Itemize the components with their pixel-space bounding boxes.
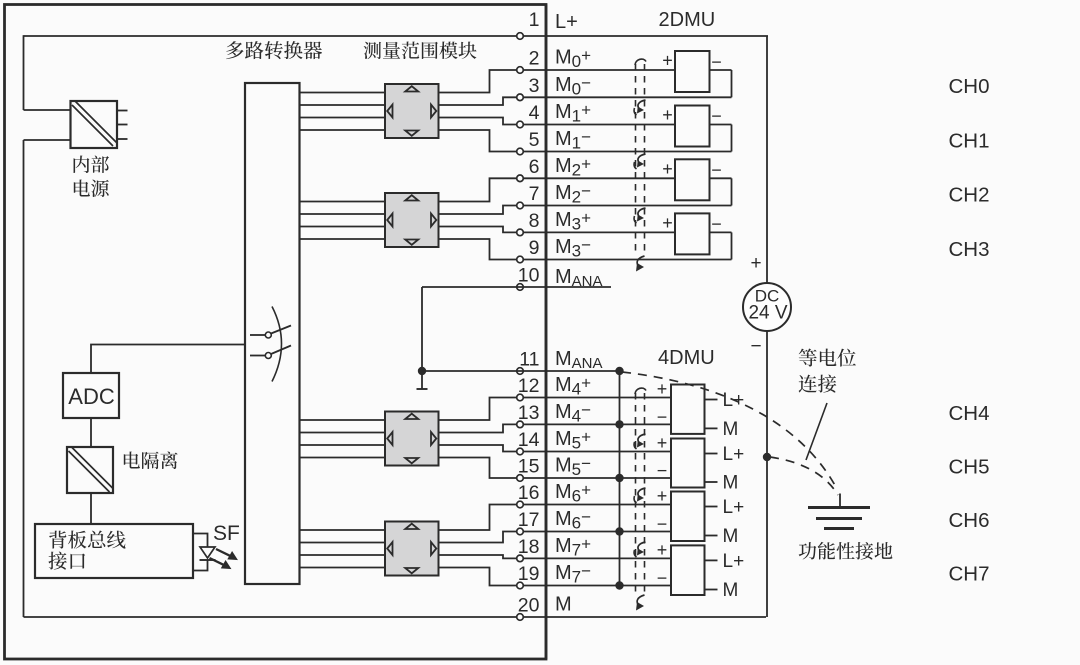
svg-text:19: 19 [518,563,540,585]
range module RM1 box [385,84,439,138]
svg-text:+: + [750,253,761,274]
label 内部 [74,156,109,174]
junction dot bus terminal 15 [615,474,623,482]
svg-text:9: 9 [529,237,540,259]
svg-text:ADC: ADC [68,384,115,409]
svg-text:−: − [711,160,722,180]
wire terminal 5 return [546,151,732,153]
svg-text:CH6: CH6 [949,509,990,532]
svg-text:L+: L+ [723,444,745,465]
MANA node stub [421,371,423,389]
svg-text:6: 6 [529,156,540,178]
range module RM4 input wires from multiplexer [300,529,386,531]
electrical isolation U2 diagonal [69,448,114,493]
terminal 14 circle [517,448,524,455]
terminal 2 circle [517,67,524,74]
terminal 16 circle [517,501,524,508]
label 接口 [48,552,85,570]
wire terminal 10 drop to MANA node [421,287,423,371]
terminal 11 circle [517,368,524,375]
svg-text:−: − [711,214,722,234]
wire terminal 16 to transmitter B6 [546,504,671,506]
transmitter B5 M stub [705,481,718,483]
terminal 19 circle [517,582,524,589]
transmitter B4 L+ stub [705,399,718,401]
terminal 4 circle [517,121,524,128]
wire terminal 8 to transmitter B3 [546,231,675,233]
svg-text:M7−: M7− [555,562,591,587]
wire M rail left riser [23,140,25,617]
svg-text:12: 12 [518,375,540,397]
wire into power supply lower input [24,139,71,141]
junction dot bus terminal 19 [615,581,623,589]
transmitter B2 output loop [710,177,732,179]
wire terminal 4 to transmitter B1 [546,124,675,126]
range module RM1 output fan to terminals 2-5 [439,70,547,93]
range module RM2 box [385,193,439,247]
node MANA junction dot [418,367,426,375]
svg-text:L+: L+ [555,11,578,33]
svg-text:M: M [723,526,739,547]
terminal strip vertical line [545,5,548,660]
svg-text:16: 16 [518,482,540,504]
ground bar 3 [824,527,854,530]
junction dot bus terminal 13 [615,420,623,428]
svg-text:M5+: M5+ [555,428,591,453]
svg-text:M5−: M5− [555,454,591,479]
transmitter B2 (CH2) box [675,159,710,200]
svg-text:M2+: M2+ [555,154,591,179]
label 电源 [74,179,109,197]
label 功能性接地 [799,542,893,560]
transmitter B5 L+ stub [705,453,718,455]
svg-text:1: 1 [529,9,540,31]
transmitter B4 M stub [705,427,718,429]
transmitter B6 L+ stub [705,506,718,508]
multiplexer U4 box [245,83,300,584]
svg-text:L+: L+ [723,497,745,518]
svg-text:5: 5 [529,129,540,151]
svg-text:M2−: M2− [555,182,591,207]
module enclosure outer box [5,5,547,660]
junction dot DC bus equipotential [763,453,771,461]
wire terminal 13 to transmitter B4 [546,423,671,425]
svg-text:7: 7 [529,183,540,205]
svg-text:SF: SF [213,522,240,545]
ground bar 2 [816,517,862,520]
svg-text:M: M [723,419,739,440]
backplane bus interface U3 (背板总线接口) box [35,524,193,578]
svg-text:+: + [657,433,668,453]
terminal 18 circle [517,555,524,562]
terminal 13 circle [517,421,524,428]
svg-text:4DMU: 4DMU [658,347,715,369]
terminal 12 circle [517,394,524,401]
svg-text:+: + [657,379,668,399]
terminal 9 circle [517,256,524,263]
range module RM2 output fan to terminals 6-9 [439,178,547,201]
svg-text:24 V: 24 V [748,303,787,324]
svg-text:CH4: CH4 [949,402,990,425]
wire terminal 6 to transmitter B2 [546,177,675,179]
terminal 15 circle [517,475,524,482]
LED SF wiring loop [193,534,208,571]
svg-text:20: 20 [518,595,540,617]
range module RM3 output fan to terminals 12-15 [439,398,547,421]
transmitter B5 (CH5) box [671,439,705,488]
svg-text:8: 8 [529,210,540,232]
svg-text:M1+: M1+ [555,101,591,126]
svg-text:L+: L+ [723,551,745,572]
ground stub [839,494,841,508]
equipotential pointer line [806,403,827,460]
svg-text:M3+: M3+ [555,208,591,233]
wire terminal 3 return [546,96,732,98]
svg-text:CH7: CH7 [949,563,990,586]
terminal 1 circle [517,33,524,40]
svg-text:M6+: M6+ [555,481,591,506]
terminal 3 circle [517,94,524,101]
svg-text:M3−: M3− [555,236,591,261]
range module RM1 input wires from multiplexer [300,92,386,94]
label 连接 [799,375,837,393]
transmitter B6 (CH6) box [671,492,705,542]
wire terminal 18 to transmitter B7 [546,557,671,559]
svg-text:15: 15 [518,456,540,478]
terminal 17 circle [517,528,524,535]
terminal 20 circle [517,614,524,621]
wire terminal 12 to transmitter B4 [546,397,671,399]
MANA bus vertical [619,371,621,586]
LED SF light arrow 1 [216,549,237,560]
LED SF light arrow 2 [210,558,231,569]
svg-text:3: 3 [529,75,540,97]
svg-text:M: M [723,473,739,494]
label 多路转换器 [226,41,322,59]
svg-text:−: − [657,568,668,588]
transmitter B6 M stub [705,535,718,537]
svg-text:M4−: M4− [555,400,591,425]
svg-text:CH0: CH0 [949,75,990,98]
svg-text:17: 17 [518,509,540,531]
svg-text:−: − [750,336,761,357]
terminal 8 circle [517,229,524,236]
label 电隔离 [124,451,178,469]
power supply PS1 (内部电源) box [71,101,118,148]
svg-text:M0−: M0− [555,73,591,98]
wire terminal 15 to transmitter B5 [546,477,671,479]
transmitter B3 output loop [710,231,732,233]
svg-text:M1−: M1− [555,128,591,153]
wire ADC to isolator [90,418,92,447]
wire DC source minus to M rail [766,331,768,617]
electrical isolation U2 (电隔离) box [67,447,113,493]
DC 24V source G1 circle [743,283,791,331]
junction dot bus terminal 17 [615,527,623,535]
label 背板总线 [49,531,125,549]
wire terminal 14 to transmitter B5 [546,451,671,453]
svg-text:10: 10 [518,265,540,287]
wire terminal 11 MANA to bus [422,370,620,372]
svg-text:M7+: M7+ [555,534,591,559]
wire terminal 7 return [546,205,732,207]
terminal 5 circle [517,148,524,155]
range module RM3 box [385,412,439,466]
terminal 7 circle [517,202,524,209]
wire isolator to backplane interface [90,493,92,524]
svg-text:−: − [711,106,722,126]
svg-text:CH5: CH5 [949,455,990,478]
svg-text:CH3: CH3 [949,238,990,261]
terminal 6 circle [517,175,524,182]
power supply PS1 output stubs [117,110,128,112]
ADC U1 box [63,373,119,418]
junction dot bus terminal 11 [615,367,623,375]
multiplexer switch arc [272,307,282,382]
svg-text:M4+: M4+ [555,374,591,399]
svg-text:−: − [711,52,722,72]
wire DC source to L+ rail [766,36,768,283]
svg-text:2DMU: 2DMU [659,9,716,31]
svg-text:−: − [657,514,668,534]
LED SF diode triangle [200,547,215,558]
label 测量范围模块 [364,42,477,60]
transmitter B1 (CH1) box [675,106,710,147]
wire L+ rail left drop [23,35,25,110]
wire terminal 9 return [546,259,732,261]
wire L+ rail (terminal 1 to internal supply and DC source) [24,35,769,37]
svg-text:13: 13 [518,402,540,424]
label 等电位 [799,349,856,367]
svg-text:+: + [657,486,668,506]
svg-text:M0+: M0+ [555,46,591,71]
svg-text:M6−: M6− [555,508,591,533]
svg-text:CH2: CH2 [949,184,990,207]
transmitter B4 (CH4) box [671,385,705,434]
wire M rail bottom (terminal 20) [24,616,767,618]
transmitter B1 output loop [710,124,732,126]
wire ADC to multiplexer [91,345,245,374]
wire terminal 17 to transmitter B6 [546,531,671,533]
svg-text:M: M [723,580,739,601]
svg-text:MANA: MANA [555,348,603,372]
wire terminal 10 MANA with underline stub [422,286,611,288]
ground bar 1 [808,506,870,509]
wire into power supply top input [24,109,71,111]
cable shield 4DMU dashed [635,393,637,595]
power supply PS1 diagonal [72,102,117,147]
svg-text:+: + [662,105,673,125]
transmitter B7 (CH7) box [671,545,705,595]
multiplexer switch levers [271,326,291,334]
svg-text:+: + [662,51,673,71]
svg-text:11: 11 [519,349,539,371]
multiplexer switch contact circles [265,332,271,338]
range module RM2 input wires from multiplexer [300,201,386,203]
svg-text:M: M [555,594,572,616]
svg-text:18: 18 [518,536,540,558]
equipotential dashed curve from DC bus [770,457,838,495]
transmitter B7 M stub [705,589,718,591]
svg-text:14: 14 [518,429,540,451]
LED SF cathode bar [200,559,216,561]
wire terminal 2 to transmitter B0 [546,69,675,71]
svg-text:CH1: CH1 [949,129,990,152]
range module RM4 output fan to terminals 16-19 [439,505,547,531]
range module RM3 input wires from multiplexer [300,419,386,421]
transmitter B0 output loop [710,69,732,71]
transmitter B7 L+ stub [705,559,718,561]
range module RM4 box [385,522,439,576]
svg-text:−: − [657,407,668,427]
svg-text:+: + [657,540,668,560]
svg-text:4: 4 [529,102,540,124]
svg-text:+: + [662,213,673,233]
transmitter B0 (CH0) box [675,51,710,92]
svg-text:−: − [657,461,668,481]
cable shield 2DMU dashed [635,64,637,256]
multiplexer switch contact stubs [250,334,265,336]
equipotential dashed curve from MANA [622,372,837,489]
terminal 10 circle [517,284,524,291]
wire terminal 19 to transmitter B7 [546,585,671,587]
svg-text:+: + [662,159,673,179]
svg-text:2: 2 [529,48,540,70]
transmitter B3 (CH3) box [675,213,710,254]
